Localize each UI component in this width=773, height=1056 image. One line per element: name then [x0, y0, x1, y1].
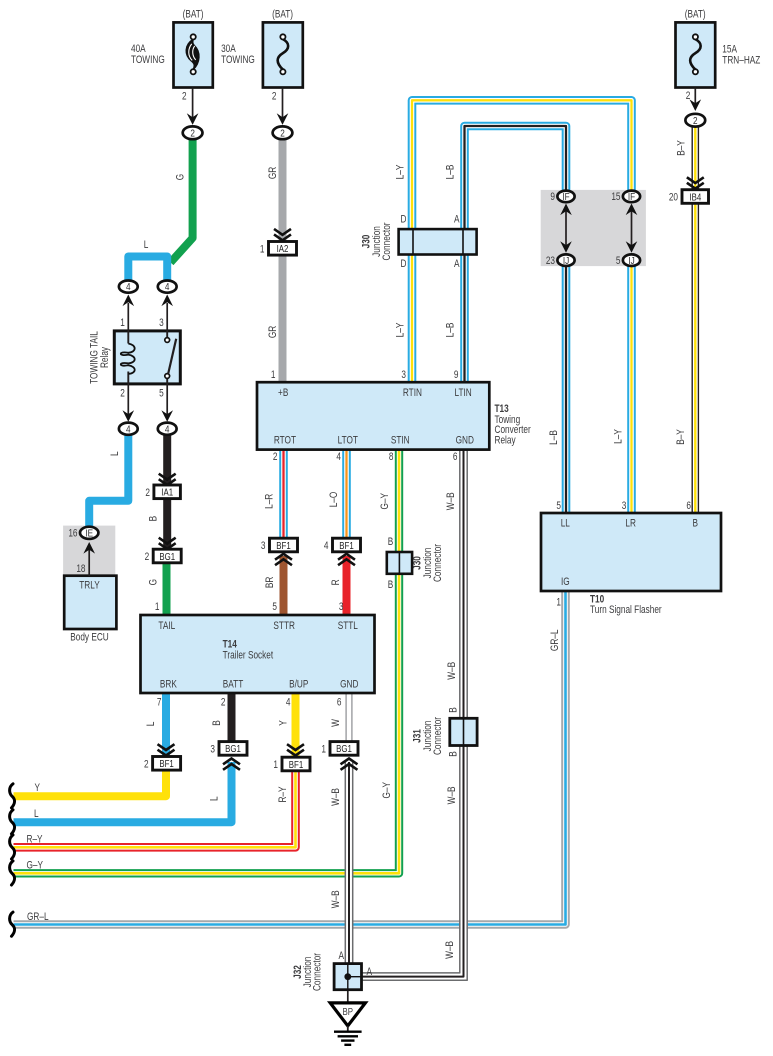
svg-text:L–O: L–O: [328, 491, 340, 507]
svg-text:IJ: IJ: [563, 254, 569, 266]
svg-text:L–Y: L–Y: [394, 164, 406, 179]
svg-text:5: 5: [616, 255, 621, 267]
svg-text:4: 4: [165, 280, 170, 292]
svg-text:B: B: [388, 579, 394, 591]
svg-text:6: 6: [453, 451, 458, 463]
svg-text:7: 7: [157, 696, 162, 708]
svg-text:A: A: [454, 258, 460, 270]
svg-text:BF1: BF1: [289, 759, 303, 770]
svg-text:IA1: IA1: [161, 487, 173, 498]
svg-text:TRN–HAZ: TRN–HAZ: [722, 54, 760, 66]
svg-text:L–R: L–R: [264, 494, 276, 509]
svg-text:3: 3: [159, 317, 164, 329]
svg-text:BG1: BG1: [336, 743, 352, 754]
svg-text:R–Y: R–Y: [27, 833, 43, 845]
svg-text:2: 2: [145, 487, 150, 499]
svg-text:B: B: [447, 751, 459, 757]
svg-text:2: 2: [272, 90, 277, 102]
svg-text:2: 2: [190, 126, 195, 138]
svg-text:L: L: [144, 239, 149, 251]
svg-text:2: 2: [273, 451, 278, 463]
svg-text:IJ: IJ: [628, 254, 634, 266]
svg-text:(BAT): (BAT): [183, 9, 204, 21]
svg-text:+B: +B: [278, 387, 288, 399]
svg-text:B–Y: B–Y: [675, 140, 687, 156]
svg-text:D: D: [401, 258, 407, 270]
svg-text:9: 9: [454, 369, 459, 381]
svg-text:3: 3: [339, 601, 344, 613]
svg-text:GND: GND: [340, 678, 358, 690]
svg-text:BF1: BF1: [339, 540, 353, 551]
svg-text:TOWING: TOWING: [221, 54, 255, 66]
svg-text:LTOT: LTOT: [338, 435, 358, 447]
svg-text:1: 1: [556, 596, 561, 608]
svg-text:B: B: [447, 707, 459, 713]
svg-text:BG1: BG1: [159, 551, 175, 562]
svg-text:IA2: IA2: [277, 243, 289, 254]
svg-text:23: 23: [546, 255, 555, 267]
svg-text:8: 8: [389, 451, 394, 463]
svg-text:IF: IF: [562, 190, 569, 202]
svg-text:4: 4: [324, 540, 329, 552]
svg-text:A: A: [454, 213, 460, 225]
svg-text:6: 6: [337, 696, 342, 708]
svg-text:5: 5: [159, 388, 164, 400]
svg-text:D: D: [401, 213, 407, 225]
svg-text:1: 1: [155, 601, 160, 613]
svg-text:Relay: Relay: [495, 435, 516, 447]
svg-text:Connector: Connector: [381, 222, 393, 261]
svg-text:1: 1: [120, 317, 125, 329]
svg-text:TRLY: TRLY: [79, 579, 100, 591]
svg-text:20: 20: [669, 191, 679, 203]
svg-text:STTL: STTL: [338, 620, 359, 632]
svg-text:W–B: W–B: [330, 890, 342, 908]
svg-text:L: L: [34, 808, 39, 820]
svg-text:STTR: STTR: [273, 620, 295, 632]
svg-text:LR: LR: [625, 517, 636, 529]
svg-text:IG: IG: [561, 576, 570, 588]
svg-text:2: 2: [182, 90, 187, 102]
svg-text:L–B: L–B: [548, 430, 560, 445]
svg-text:4: 4: [126, 422, 131, 434]
svg-text:L–B: L–B: [444, 323, 456, 338]
svg-text:G–Y: G–Y: [379, 493, 391, 510]
svg-text:W–B: W–B: [446, 786, 458, 804]
svg-text:Relay: Relay: [99, 347, 111, 368]
svg-text:L–B: L–B: [444, 165, 456, 180]
svg-text:4: 4: [336, 451, 341, 463]
svg-text:B–Y: B–Y: [675, 429, 687, 445]
svg-text:Body ECU: Body ECU: [70, 631, 109, 643]
svg-text:W–B: W–B: [446, 662, 458, 680]
svg-text:3: 3: [622, 500, 627, 512]
svg-text:18: 18: [76, 563, 85, 575]
svg-text:1: 1: [273, 759, 278, 771]
svg-text:4: 4: [165, 422, 170, 434]
svg-text:2: 2: [145, 551, 150, 563]
svg-text:5: 5: [556, 500, 561, 512]
svg-text:4: 4: [286, 696, 291, 708]
svg-text:BG1: BG1: [225, 743, 241, 754]
svg-text:IF: IF: [628, 190, 635, 202]
svg-text:GR: GR: [267, 167, 279, 179]
svg-text:B: B: [147, 516, 159, 522]
svg-text:BP: BP: [343, 1006, 354, 1017]
svg-text:3: 3: [261, 540, 266, 552]
svg-text:GND: GND: [456, 435, 474, 447]
svg-text:9: 9: [550, 191, 555, 203]
svg-text:BF1: BF1: [159, 758, 173, 769]
svg-text:IE: IE: [85, 526, 93, 538]
svg-text:W–B: W–B: [444, 941, 456, 959]
svg-text:L: L: [145, 721, 157, 726]
svg-text:L–Y: L–Y: [394, 322, 406, 337]
svg-text:B: B: [211, 720, 223, 726]
svg-text:B: B: [388, 536, 394, 548]
svg-text:R: R: [330, 579, 342, 585]
svg-text:TAIL: TAIL: [158, 620, 175, 632]
svg-text:G: G: [174, 174, 186, 180]
svg-text:2: 2: [144, 758, 149, 770]
svg-text:Y: Y: [35, 782, 41, 794]
svg-text:G–Y: G–Y: [381, 782, 393, 799]
svg-text:A: A: [367, 966, 373, 978]
svg-text:RTOT: RTOT: [274, 435, 296, 447]
svg-text:5: 5: [272, 601, 277, 613]
svg-text:W: W: [330, 718, 342, 726]
svg-text:Connector: Connector: [432, 716, 444, 755]
svg-text:IB4: IB4: [689, 191, 701, 202]
svg-text:Y: Y: [277, 720, 289, 726]
svg-text:2: 2: [280, 126, 285, 138]
svg-text:15: 15: [611, 191, 620, 203]
svg-text:GR: GR: [267, 326, 279, 338]
svg-text:RTIN: RTIN: [403, 387, 422, 399]
svg-text:R–Y: R–Y: [277, 786, 289, 802]
svg-text:Trailer Socket: Trailer Socket: [223, 649, 274, 661]
svg-text:GR–L: GR–L: [549, 629, 561, 651]
svg-text:L–Y: L–Y: [612, 429, 624, 444]
svg-text:A: A: [338, 950, 344, 962]
svg-text:LL: LL: [561, 517, 571, 529]
svg-text:1: 1: [260, 243, 265, 255]
svg-text:BRK: BRK: [160, 678, 177, 690]
svg-text:BR: BR: [264, 577, 276, 588]
svg-text:G: G: [148, 579, 160, 585]
svg-text:2: 2: [693, 114, 698, 126]
svg-text:LTIN: LTIN: [454, 387, 471, 399]
svg-text:B: B: [693, 517, 699, 529]
svg-text:Connector: Connector: [312, 952, 324, 991]
svg-text:GR–L: GR–L: [27, 911, 49, 923]
svg-text:BF1: BF1: [276, 540, 290, 551]
svg-text:(BAT): (BAT): [272, 9, 293, 21]
svg-text:BATT: BATT: [223, 678, 244, 690]
svg-text:16: 16: [68, 527, 77, 539]
svg-text:3: 3: [210, 743, 215, 755]
svg-text:L: L: [208, 796, 220, 801]
svg-text:W–B: W–B: [330, 788, 342, 806]
svg-text:Connector: Connector: [432, 543, 444, 582]
svg-text:L: L: [109, 451, 121, 456]
svg-text:2: 2: [120, 388, 125, 400]
svg-text:2: 2: [686, 90, 691, 102]
svg-text:B/UP: B/UP: [289, 678, 308, 690]
svg-text:6: 6: [686, 500, 691, 512]
svg-text:3: 3: [401, 369, 406, 381]
svg-text:2: 2: [221, 696, 226, 708]
svg-text:TOWING: TOWING: [131, 54, 165, 66]
svg-text:1: 1: [271, 369, 276, 381]
svg-text:W–B: W–B: [445, 492, 457, 510]
svg-text:(BAT): (BAT): [685, 9, 706, 21]
svg-text:1: 1: [321, 743, 326, 755]
svg-text:STIN: STIN: [391, 435, 410, 447]
svg-text:G–Y: G–Y: [27, 859, 44, 871]
svg-text:Turn Signal Flasher: Turn Signal Flasher: [590, 604, 662, 616]
svg-text:4: 4: [126, 280, 131, 292]
